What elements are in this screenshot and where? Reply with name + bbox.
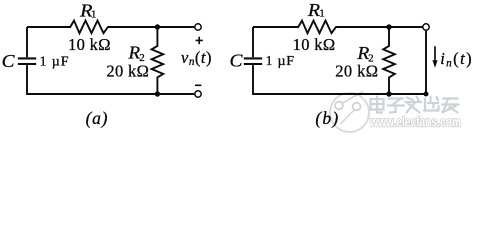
svg-text:1 µF: 1 µF (40, 55, 69, 70)
svg-text:1: 1 (319, 7, 325, 19)
svg-text:C: C (230, 51, 244, 71)
svg-text:www.elecfans.com: www.elecfans.com (369, 113, 461, 129)
svg-text:R: R (307, 0, 320, 20)
svg-text:(a): (a) (86, 108, 109, 128)
svg-text:10 kΩ: 10 kΩ (68, 35, 111, 54)
svg-text:1 µF: 1 µF (266, 54, 295, 69)
svg-text:20 kΩ: 20 kΩ (335, 61, 378, 80)
svg-text:vn(t): vn(t) (181, 48, 212, 68)
svg-text:C: C (2, 51, 16, 71)
svg-text:10 kΩ: 10 kΩ (293, 35, 336, 54)
svg-text:in(t): in(t) (440, 49, 473, 69)
svg-text:1: 1 (91, 8, 97, 20)
svg-text:R: R (127, 42, 140, 62)
svg-text:20 kΩ: 20 kΩ (106, 61, 148, 80)
svg-text:(b): (b) (315, 108, 339, 128)
